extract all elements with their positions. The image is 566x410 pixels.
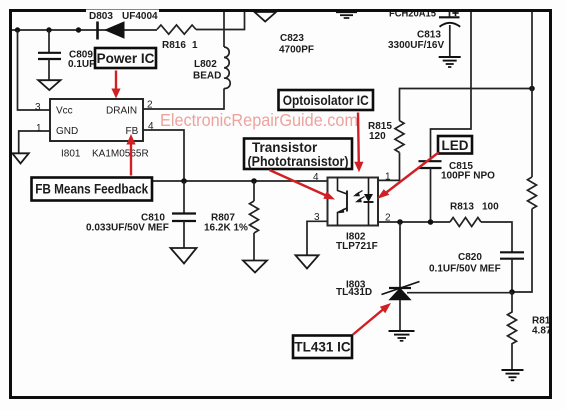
wire R816 to top frame: [196, 11, 245, 30]
node dot R814 junction: [509, 289, 515, 295]
resistor R807: [250, 181, 259, 261]
wire feedback net horizontal: [150, 180, 328, 182]
callout box Transistor (Phototransistor): [244, 139, 352, 170]
svg-text:ElectronicRepairGuide.com: ElectronicRepairGuide.com: [160, 110, 358, 130]
watermark ElectronicRepairGuide.com: [160, 110, 358, 130]
node junction dot left: [15, 27, 20, 32]
svg-text:GND: GND: [56, 126, 78, 137]
resistor R815: [395, 121, 404, 153]
red arrow Transistor to phototransistor: [270, 170, 336, 200]
svg-text:LED: LED: [442, 138, 469, 153]
wire opto pin4 is feedback net (drawn) ; wire opto pin3 to ground: [307, 221, 328, 255]
svg-text:120: 120: [369, 131, 386, 142]
node dot C815 tap: [428, 219, 434, 225]
wire right vertical from frame: [531, 11, 533, 178]
wire opto pin1 to R815: [378, 153, 400, 181]
svg-text:TL431D: TL431D: [336, 287, 372, 298]
label L802 BEAD: [193, 59, 221, 82]
label I803 TL431D: [336, 280, 372, 299]
label C815 100PF NPO: [441, 161, 495, 182]
ground below TL431: [389, 331, 415, 341]
svg-text:Vcc: Vcc: [56, 106, 73, 117]
red arrow FB Means Feedback to FB pin: [126, 134, 135, 176]
svg-text:C823: C823: [280, 33, 304, 44]
svg-text:D803: D803: [89, 11, 113, 22]
resistor R814: [508, 292, 517, 370]
capacitor C809: [38, 30, 61, 80]
svg-text:DRAIN: DRAIN: [106, 106, 137, 117]
svg-text:FB Means Feedback: FB Means Feedback: [35, 182, 148, 197]
svg-text:L802: L802: [194, 59, 217, 70]
wire TL431 ref to divider: [407, 292, 512, 294]
wire top rail: [11, 29, 158, 31]
label D803 UF4004 over frame: [86, 10, 159, 22]
optoisolator I802 TLP721F box: [328, 178, 379, 226]
node junction dot C809 tap: [46, 27, 51, 32]
label C823 4700PF: [279, 33, 314, 56]
svg-text:FB: FB: [126, 126, 139, 137]
wire R815 top to rail: [400, 89, 533, 121]
svg-text:I801: I801: [61, 149, 81, 160]
label C809 0.1UF: [68, 50, 95, 71]
svg-text:Power IC: Power IC: [97, 51, 155, 66]
resistor R813: [450, 218, 481, 227]
label C813 3300UF/16V: [388, 30, 444, 52]
svg-text:R813: R813: [450, 202, 474, 213]
node junction dot mid: [76, 27, 81, 32]
svg-text:(Phototransistor): (Phototransistor): [248, 154, 349, 169]
ground opto pin3: [296, 255, 319, 268]
svg-text:4: 4: [148, 121, 154, 132]
capacitor C810: [172, 181, 196, 248]
svg-text:TLP721F: TLP721F: [336, 241, 378, 252]
ground below C809: [38, 80, 60, 90]
ground IC GND: [12, 153, 29, 163]
ground below R807: [243, 261, 267, 273]
wire C815 branch from frame: [431, 11, 472, 161]
node dot TL431 tap: [397, 219, 403, 225]
svg-text:1: 1: [36, 123, 42, 134]
capacitor C820: [500, 252, 524, 292]
label C820 0.1UF/50V MEF: [429, 252, 501, 275]
callout box TL431 IC: [293, 336, 352, 359]
svg-text:4700PF: 4700PF: [279, 45, 314, 56]
svg-text:0.033UF/50V MEF: 0.033UF/50V MEF: [86, 223, 169, 234]
svg-text:16.2K 1%: 16.2K 1%: [204, 223, 248, 234]
inductor L802 BEAD: [143, 11, 230, 110]
svg-text:1: 1: [192, 40, 198, 51]
svg-text:KA1M0565R: KA1M0565R: [92, 149, 149, 160]
red arrow Power IC to I801: [111, 71, 120, 99]
LED inside opto: [353, 178, 374, 226]
wire GND pin to ground: [19, 131, 50, 153]
node dot right rail: [529, 86, 535, 92]
node dot C810 tap: [181, 178, 187, 184]
svg-text:BEAD: BEAD: [193, 71, 221, 82]
red arrow Optoisolator IC to I802: [354, 113, 363, 173]
svg-text:100PF NPO: 100PF NPO: [441, 171, 495, 182]
wire opto pin2 bottom net: [378, 221, 450, 223]
svg-text:100: 100: [482, 202, 499, 213]
svg-text:2: 2: [147, 100, 153, 111]
label R813 100: [450, 202, 499, 213]
label I802 TLP721F: [336, 232, 378, 253]
svg-text:UF4004: UF4004: [122, 11, 158, 22]
label R816 1: [162, 40, 198, 51]
ground below R814: [502, 370, 524, 380]
callout box Optoisolator IC: [279, 90, 374, 110]
op IC I801 KA1M0565R box: [50, 99, 143, 141]
svg-text:2: 2: [385, 213, 391, 224]
wire R813 to C820: [481, 222, 512, 252]
capacitor C813 electrolytic: [439, 11, 460, 57]
red arrow TL431 IC to I803: [353, 303, 391, 335]
label R807 16.2K 1%: [204, 213, 248, 234]
capacitor C815: [419, 161, 442, 222]
svg-text:Transistor: Transistor: [252, 140, 318, 155]
wire Vcc branch: [18, 30, 51, 110]
svg-text:3: 3: [314, 212, 320, 223]
callout box FB Means Feedback: [32, 178, 153, 201]
opto pin labels: [313, 172, 391, 224]
ground bars at top frame: [336, 12, 357, 18]
svg-text:C813: C813: [417, 30, 441, 41]
svg-text:0.1UF: 0.1UF: [68, 59, 95, 70]
svg-text:0.1UF/50V MEF: 0.1UF/50V MEF: [429, 264, 501, 275]
wire TL431 cathode: [399, 222, 401, 287]
wire right vertical lower: [512, 209, 532, 292]
ground triangle at top frame: [255, 12, 277, 22]
ground below C810: [171, 248, 197, 264]
svg-text:3300UF/16V: 3300UF/16V: [388, 40, 444, 51]
svg-text:4: 4: [313, 172, 319, 183]
label R814 4.87 clipped at frame: [532, 316, 559, 337]
svg-text:TL431 IC: TL431 IC: [294, 340, 351, 355]
diode D803: [98, 21, 125, 39]
red arrow LED to opto LED: [377, 153, 439, 200]
svg-text:1: 1: [385, 172, 391, 183]
svg-text:R816: R816: [162, 40, 186, 51]
svg-text:3: 3: [35, 102, 41, 113]
resistor right (unlabeled): [528, 177, 537, 209]
TL431 I803 symbol: [382, 282, 420, 331]
IC pin labels: [35, 100, 154, 138]
callout box LED: [438, 136, 472, 154]
svg-text:Optoisolator IC: Optoisolator IC: [283, 93, 369, 108]
label FCH20A15 (top clipped by frame): [389, 9, 436, 20]
ground below C813: [439, 57, 461, 67]
wire FB pin to feedback net: [143, 130, 184, 181]
node dot R807 tap: [251, 178, 257, 184]
svg-text:C820: C820: [458, 252, 482, 263]
phototransistor inside opto: [338, 178, 348, 226]
resistor R816: [157, 25, 196, 34]
callout box Power IC: [95, 48, 156, 68]
label R815 120: [368, 121, 392, 142]
label I801 KA1M0565R: [61, 149, 149, 160]
label C810 0.033UF/50V MEF: [86, 213, 169, 234]
